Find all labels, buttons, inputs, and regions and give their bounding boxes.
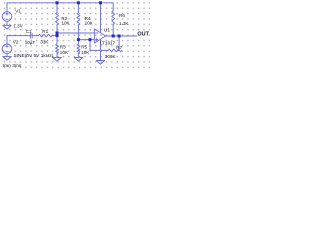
voltage source V2: [2, 44, 12, 54]
resistor R3: [56, 44, 59, 54]
svg-text:R5: R5: [81, 44, 87, 49]
ground below V1: [3, 25, 11, 29]
resistor R7: [108, 49, 122, 52]
svg-text:R3: R3: [60, 45, 66, 50]
ground below V2: [3, 57, 11, 61]
wire R1 to node: [52, 35, 57, 37]
junction output R6: [112, 35, 115, 38]
wire V+ supply: [100, 3, 102, 33]
junction output feedback: [118, 35, 121, 38]
wire feedback to R7: [90, 49, 108, 51]
resistor R5: [77, 44, 80, 54]
wire R4 to R5: [77, 25, 79, 44]
wire V2 to ground: [6, 54, 8, 57]
junction node A upper: [56, 32, 59, 35]
wire R5 to ground: [77, 54, 79, 58]
junction node B: [77, 38, 80, 41]
svg-text:SINE(0V 5V 1kHz): SINE(0V 5V 1kHz): [14, 53, 54, 59]
svg-text:300K: 300K: [105, 54, 117, 59]
wire V2 top to C1: [7, 36, 30, 44]
wire divider1 top: [56, 3, 58, 13]
junction node A lower: [56, 34, 59, 37]
resistor R4: [77, 13, 80, 25]
ground below R5: [74, 58, 82, 62]
svg-text:10µF: 10µF: [25, 40, 36, 45]
svg-text:1.3K: 1.3K: [119, 21, 129, 26]
capacitor C1: [30, 33, 32, 38]
svg-text:R7: R7: [116, 45, 122, 50]
svg-text:10K: 10K: [85, 21, 94, 26]
wire top rail: [7, 3, 113, 12]
ground below op-amp: [96, 61, 104, 65]
svg-text:10K: 10K: [81, 50, 90, 55]
wire feedback tap down: [89, 40, 91, 51]
resistor R2: [56, 13, 59, 25]
wire R7 to output: [118, 36, 119, 50]
svg-text:10K: 10K: [61, 21, 70, 26]
wire node A to op-amp inverting input: [57, 32, 94, 34]
op-amp U1 triangle: [94, 29, 105, 43]
op-amp minus mark: [96, 32, 98, 34]
svg-text:R6: R6: [119, 13, 125, 18]
resistor R6: [112, 11, 115, 24]
wire output: [106, 35, 137, 37]
voltage source V1: [2, 12, 12, 22]
wire node B to op-amp non-inverting input: [78, 39, 94, 41]
ground below R3: [53, 58, 61, 62]
junction top rail node 1: [56, 1, 59, 4]
wire R3 to ground: [56, 54, 58, 58]
grid dots: [0, 0, 150, 72]
wire V1 to ground: [6, 21, 8, 25]
wire divider2 top: [77, 3, 79, 13]
op-amp plus mark: [96, 39, 98, 41]
junction top rail node 3: [99, 1, 102, 4]
svg-text:33K: 33K: [40, 40, 49, 45]
wire V- to ground: [100, 39, 102, 60]
svg-text:R1: R1: [42, 29, 48, 34]
wire C1 to R1: [32, 35, 38, 37]
junction top rail node 2: [77, 1, 80, 4]
svg-text:C1: C1: [26, 29, 32, 34]
svg-text:V2: V2: [13, 39, 19, 44]
svg-text:OUT: OUT: [137, 31, 149, 37]
wire R2 to R3: [56, 25, 58, 44]
svg-text:U1: U1: [104, 27, 110, 32]
svg-text:V1: V1: [15, 8, 21, 13]
svg-text:LT1017: LT1017: [100, 41, 116, 46]
resistor R1: [38, 34, 52, 37]
wire R6 bottom lead: [112, 24, 114, 36]
junction feedback tap: [89, 38, 92, 41]
svg-text:.tran 3ms: .tran 3ms: [1, 63, 22, 69]
svg-text:10K: 10K: [60, 50, 69, 55]
svg-text:1.3V: 1.3V: [13, 24, 23, 29]
